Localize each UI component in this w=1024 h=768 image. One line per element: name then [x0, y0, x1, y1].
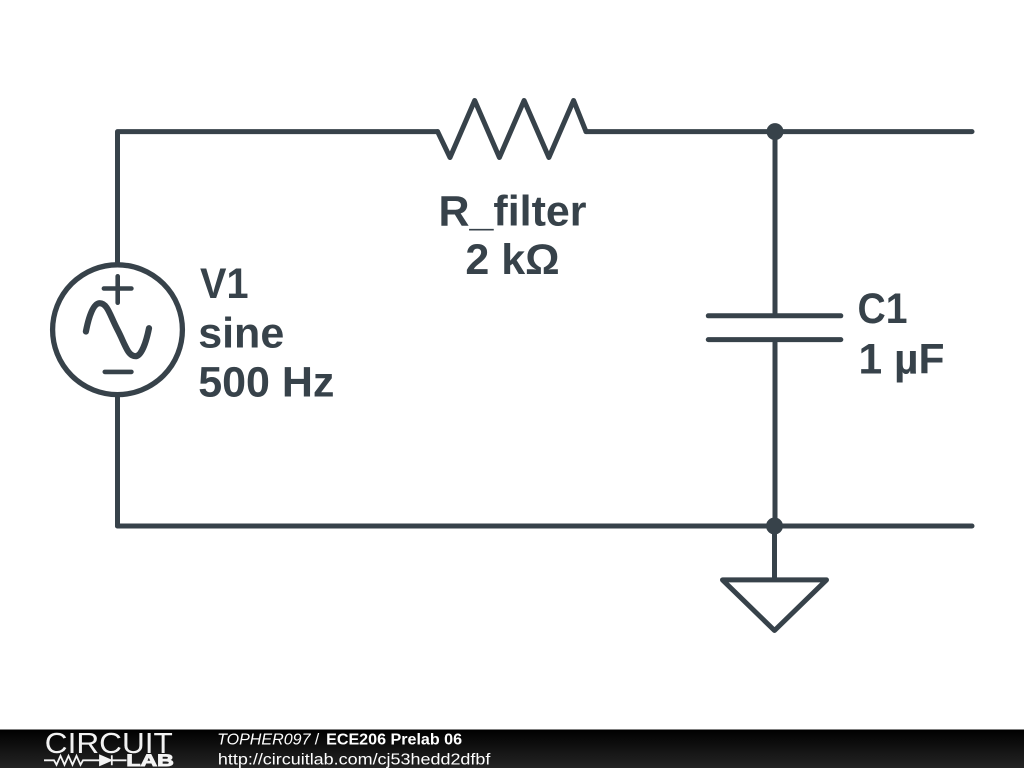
V1 circle body [53, 265, 183, 395]
svg-text:R_filter: R_filter [439, 188, 587, 236]
svg-text:/: / [315, 731, 320, 748]
wire [118, 132, 438, 264]
wire [118, 524, 776, 529]
svg-text:C1: C1 [858, 285, 908, 333]
wire [115, 396, 120, 526]
wire [775, 129, 972, 134]
svg-text:http://circuitlab.com/cj53hedd: http://circuitlab.com/cj53hedd2dfbf [218, 751, 491, 768]
svg-text:ECE206 Prelab 06: ECE206 Prelab 06 [326, 731, 462, 748]
capacitor C1 [708, 316, 841, 340]
wire [773, 132, 778, 313]
svg-text:sine: sine [198, 310, 284, 358]
svg-text:LAB: LAB [126, 752, 174, 768]
logo circuit glyph [44, 755, 127, 765]
ground [723, 580, 827, 631]
voltage source V1 [53, 265, 183, 395]
svg-text:V1: V1 [200, 260, 249, 308]
svg-text:1 µF: 1 µF [859, 336, 945, 384]
V1 sine waveform mark [86, 303, 149, 356]
footer bar [0, 730, 1024, 768]
wire [586, 129, 775, 134]
wire [772, 526, 777, 578]
svg-text:500 Hz: 500 Hz [198, 359, 334, 407]
node B [766, 518, 783, 535]
resistor R_filter [438, 101, 586, 158]
V1 plus terminal mark [104, 276, 131, 302]
V1 minus terminal mark [105, 370, 132, 375]
wire [773, 343, 778, 527]
wire [775, 524, 972, 529]
svg-text:2 kΩ: 2 kΩ [465, 236, 559, 284]
svg-text:TOPHER097: TOPHER097 [217, 731, 312, 748]
node A [767, 123, 784, 140]
